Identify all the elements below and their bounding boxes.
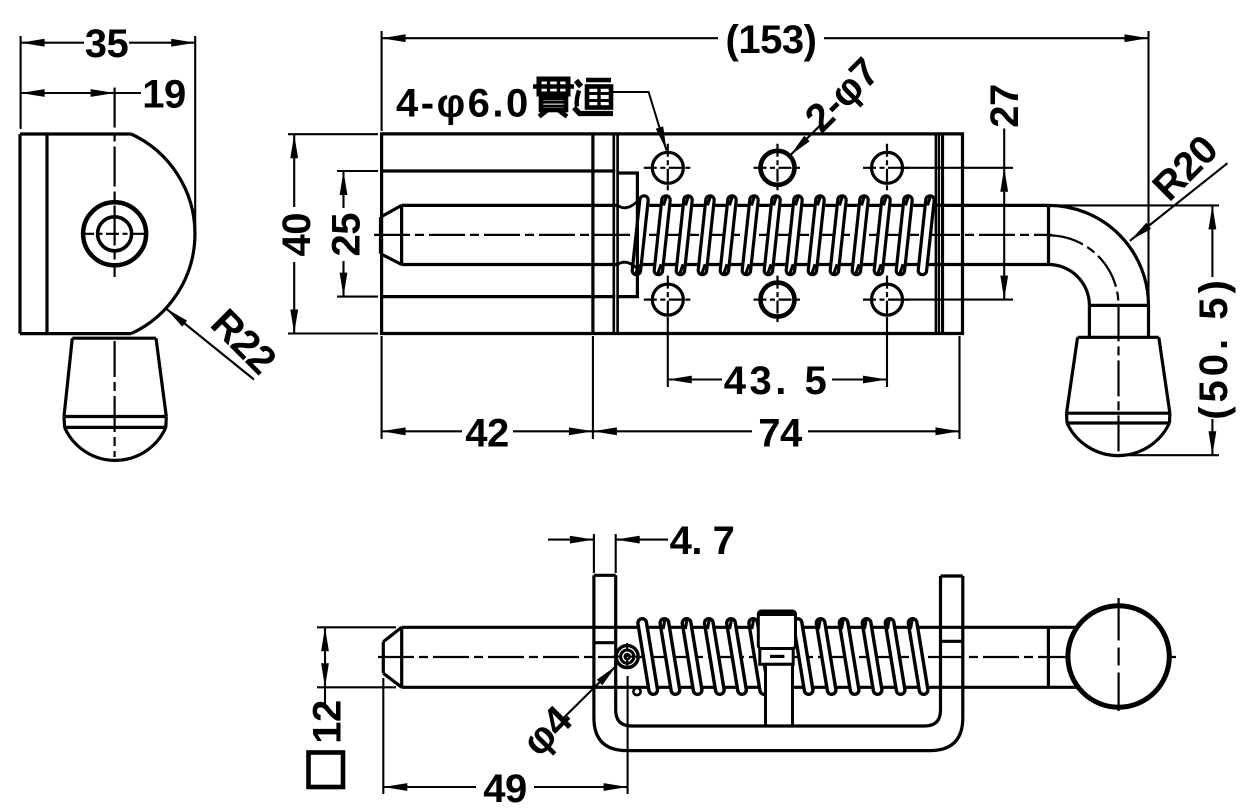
left view: knob centerline xyxy=(113,341,115,457)
dimension 74 line and arrows xyxy=(593,430,752,432)
main view: bolt pin with chamfered tip xyxy=(381,205,620,264)
left view: hole horizontal centerline xyxy=(81,233,148,235)
dimension (50.5) line and arrows xyxy=(1211,205,1213,277)
left view: pivot hole outer circle xyxy=(83,202,146,265)
dimension 19 line and arrows xyxy=(21,92,115,94)
dimension square symbol xyxy=(309,753,344,788)
left view: knob dome arc xyxy=(65,427,166,460)
main view: handle tube sides xyxy=(1088,305,1091,337)
svg-text:(50. 5): (50. 5) xyxy=(1192,276,1236,420)
label 2-phi7 leader line and arrow xyxy=(790,123,823,156)
dimension 42/74 extension lines xyxy=(381,336,383,439)
dimension 27 line and arrows xyxy=(1003,129,1005,301)
label glyph tong xyxy=(574,80,613,114)
dimension 43.5 line and arrows xyxy=(668,378,722,380)
svg-text:4. 7: 4. 7 xyxy=(670,519,735,563)
main view: handle knob dome arc xyxy=(1067,423,1169,456)
main view: spring seat flange xyxy=(618,173,638,297)
svg-text:43. 5: 43. 5 xyxy=(724,359,830,403)
main view: handle joint lines xyxy=(1047,205,1050,264)
left view: vertical centerline xyxy=(113,88,115,278)
dimension 49 line and arrows xyxy=(383,786,476,788)
bottom view: knob top circle xyxy=(1068,606,1169,707)
main view: handle bend inner arc xyxy=(1049,265,1090,306)
main view: handle bend outer arc xyxy=(1049,205,1149,305)
bottom view: bracket leg caps and hole lines xyxy=(594,575,963,642)
svg-text:35: 35 xyxy=(85,22,129,66)
left view: R22 body arc xyxy=(131,134,195,334)
dimension 43.5 extension lines xyxy=(667,322,669,387)
bottom view: guide block band xyxy=(760,649,793,665)
dimension 25 extension lines xyxy=(337,170,378,172)
dimension (153) line and arrows xyxy=(382,37,718,39)
dimension 40 line and arrows xyxy=(293,134,295,207)
label glyph guan xyxy=(533,79,574,117)
main view: spring seat fillet arcs xyxy=(618,201,638,207)
dimension (50.5) extension lines xyxy=(1053,204,1219,206)
svg-text:(153): (153) xyxy=(726,18,817,62)
bottom view: small hole circle xyxy=(633,688,640,695)
bottom view: rod with chamfered tip xyxy=(383,627,1078,687)
bottom view: bracket inner outline xyxy=(616,575,941,726)
svg-text:27: 27 xyxy=(983,84,1027,128)
main view: housing inner horizontals (25 width) xyxy=(382,169,616,172)
main view: screw holes top row xyxy=(652,152,683,183)
main view: screw holes bottom row xyxy=(652,284,683,315)
main view: horizontal centerline xyxy=(374,234,1052,236)
svg-text:49: 49 xyxy=(483,767,527,811)
dimension 25 line and arrows xyxy=(342,171,344,208)
bottom view: spring coils xyxy=(642,623,653,690)
dimension 42 line and arrows xyxy=(382,430,462,432)
svg-text:25: 25 xyxy=(325,213,369,257)
bottom view: guide block stem xyxy=(766,664,793,726)
svg-text:4-φ6.0: 4-φ6.0 xyxy=(396,82,531,126)
label phi4 leader line and arrow xyxy=(563,666,617,719)
main view: handle bend centerline arc xyxy=(1049,235,1119,305)
bottom view: bracket outer outline xyxy=(594,575,963,750)
label 4-phi6.0 leader line and arrow xyxy=(612,92,667,151)
left view: pivot hole inner circle xyxy=(98,217,132,251)
main view: bolt rod behind spring xyxy=(637,204,1049,207)
left view: latch body side outline xyxy=(20,134,131,334)
main view: spring coils xyxy=(636,200,644,271)
dimension square-12 extension lines xyxy=(317,626,396,628)
main view: handle knob centerline xyxy=(1117,305,1119,452)
bottom view: rod-knob joint line xyxy=(1047,627,1050,687)
dimension 40 extension lines xyxy=(288,133,378,135)
svg-text:19: 19 xyxy=(142,73,186,117)
svg-text:74: 74 xyxy=(758,411,803,455)
dimension square-12 line and arrows xyxy=(324,627,326,704)
bottom view: phi4 pin circles xyxy=(616,646,638,668)
svg-text:42: 42 xyxy=(465,411,509,455)
main view: housing inner verticals xyxy=(591,134,594,334)
bottom view: guide block upper part xyxy=(758,611,795,649)
main view: spring back coil segments xyxy=(664,196,667,205)
R20 leader line and arrow xyxy=(1130,163,1228,241)
dimension 35 extension lines xyxy=(20,36,22,129)
bottom view: knob circle crosshair xyxy=(1117,598,1119,641)
dimension (153) extension lines xyxy=(381,31,383,131)
svg-text:12: 12 xyxy=(306,700,350,744)
main view: housing outline xyxy=(382,134,963,334)
svg-text:40: 40 xyxy=(275,213,319,256)
dimension 35 line and arrows xyxy=(21,42,84,44)
dimension 4.7 line and arrows xyxy=(548,539,594,541)
R22 leader line and arrow xyxy=(166,309,254,380)
dimension 27 extension lines xyxy=(903,167,1013,169)
dimension 49 extension lines xyxy=(382,678,384,794)
left view: knob xyxy=(64,338,166,427)
dimension 4.7 extension lines xyxy=(593,534,595,573)
main view: handle knob xyxy=(1067,337,1170,423)
bottom view: horizontal centerline xyxy=(378,656,1176,658)
bottom view: spring back coil segments xyxy=(663,620,665,629)
